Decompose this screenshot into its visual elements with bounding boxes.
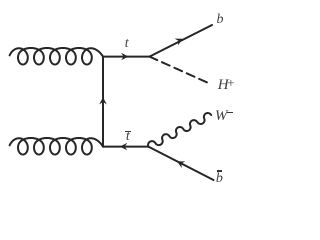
fermion bbar outgoing xyxy=(148,147,213,180)
gluon g (bottom incoming) xyxy=(10,138,103,155)
overbar of tbar xyxy=(125,131,131,132)
label t (top quark) xyxy=(125,37,129,51)
wire t line horizontal xyxy=(103,56,150,58)
label H+ xyxy=(218,78,229,93)
arrow right on t line xyxy=(121,53,128,61)
superscript plus of H+ xyxy=(227,76,234,89)
arrow up on propagator xyxy=(99,97,107,104)
label tbar xyxy=(126,130,130,144)
arrow left on tbar line xyxy=(120,143,127,151)
label W- xyxy=(215,109,228,124)
boson H+ dashed xyxy=(150,57,210,84)
fermion b outgoing xyxy=(150,25,213,57)
arrow on bbar line xyxy=(177,161,185,168)
boson W- wavy xyxy=(148,113,211,147)
arrow on b line xyxy=(175,39,183,46)
gluon g (top incoming) xyxy=(10,48,103,65)
superscript minus of W- xyxy=(227,112,233,114)
wire tbar line horizontal xyxy=(103,146,148,148)
label bbar xyxy=(216,172,223,186)
wire top-quark propagator vertical xyxy=(102,57,104,147)
label b xyxy=(217,13,224,27)
overbar of bbar xyxy=(217,170,221,171)
